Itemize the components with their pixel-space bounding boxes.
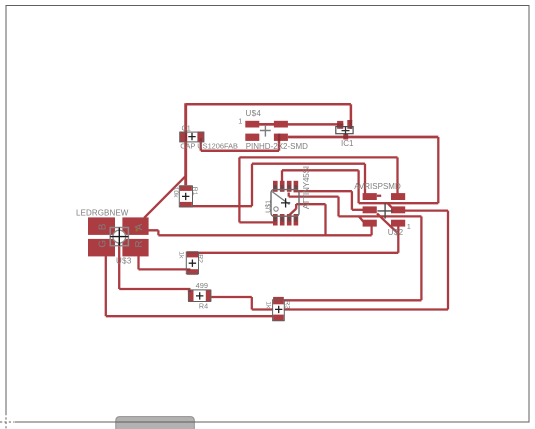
wire y164 to AVRISP top-left [252,163,365,165]
svg-text:R: R [134,240,145,247]
wire x239 vertical [238,157,240,222]
chip U$1 pin1 diagonal [272,192,290,205]
U$4 origin cross [260,125,271,137]
wire C1 right to U$4 [201,149,279,152]
wire C1 left / R1 vertical [184,103,187,186]
resistor R3 [273,297,284,321]
svg-text:U$3: U$3 [116,257,132,266]
wire y157 to AVRISP top-right [239,156,397,158]
wire LED A jog [148,230,159,235]
wire long net y235 [158,234,371,236]
wire y317 to R3 bottom [106,315,274,317]
wire U$4 pad drop [278,140,281,151]
U$4 pad/trace overlap [278,134,280,141]
scrollbar thumb [116,417,195,429]
chip U$1 pin leg marks [274,185,297,222]
wire into AVRISP mid-left pad [352,209,364,211]
IC1 body outline [336,127,353,134]
wire y196 across [289,195,339,197]
C1 origin cross [188,133,195,140]
U$2 origin cross [377,203,392,218]
wire mitre into mid-right pad [387,203,393,209]
chip U$1 pads [273,181,298,226]
R3 origin cross [275,306,282,313]
wire chip pin7 riser [281,170,283,182]
wire nub into bot-left pad [359,216,364,221]
svg-text:R4: R4 [199,301,208,310]
wire U$4 to IC1 top [259,123,339,126]
svg-text:R1: R1 [191,187,198,196]
wire C1 right pad drop [200,141,203,151]
wire R4 right drop [251,297,253,310]
LED U$3 center square marker [110,228,128,246]
capacitor C1 [180,132,204,143]
wire x358 drop [357,170,359,203]
IC1 origin cross [342,127,350,135]
wire y309 across (under R3) [252,308,448,310]
wire chip pin4 bottom feed [239,221,274,223]
wire to IC1 input [350,104,353,121]
svg-text:499: 499 [196,281,208,290]
wire chip bottom diagonal [288,209,296,217]
origin crosshair (dashed) [0,413,14,429]
svg-text:AVRISPSMD: AVRISPSMD [354,182,401,191]
connector U$4 pads [245,121,288,141]
LED U$3 center ring [113,230,126,243]
wire chip pin6 stub [288,193,290,197]
resistor R2 [187,251,198,275]
svg-text:IC1: IC1 [341,139,354,148]
wire LED R drop [137,256,139,270]
LED U$3 pads [88,217,149,256]
wire right loop vertical [437,137,439,203]
U$3 origin cross [110,228,128,246]
wire y269 to R2 bottom [139,268,191,270]
svg-text:C1: C1 [182,123,191,132]
wire AVRISP bot-right pad drop [397,226,399,253]
wire junction x326 [324,204,326,235]
wire x352 drop [351,191,353,210]
wire LED G loop vertical [105,256,107,317]
wire AVRISP bot-left pad drop [370,226,372,236]
wire R2 top to AVRISP bot-right [198,252,399,254]
svg-text:1: 1 [238,117,242,126]
resistor R1 [180,185,192,207]
LED A pad polarity mark [136,229,138,232]
svg-text:A: A [134,223,145,230]
IC1 pads [337,120,352,140]
svg-text:R2: R2 [197,254,204,263]
capacitor C1 outline [180,132,204,142]
svg-text:1: 1 [407,222,411,231]
R4 origin cross [196,292,203,299]
resistor R1 outline [179,186,192,207]
wire R1 bottom to x252 [190,205,252,207]
wire LED B drop [118,237,120,289]
wire VCC to AVRISP mid-right [359,202,439,204]
svg-text:U$2: U$2 [388,228,404,237]
svg-text:1k: 1k [265,301,272,309]
wire y216 across [339,215,422,217]
R2 origin cross [189,260,196,267]
connector U$2 AVRISP pads [363,193,406,226]
svg-text:10k: 10k [172,187,179,199]
resistor R4 outline [189,290,211,302]
svg-text:PINHD-2X2-SMD: PINHD-2X2-SMD [246,142,308,151]
svg-text:CAP US1206FAB: CAP US1206FAB [180,142,238,151]
resistor R4 [188,290,212,301]
svg-text:1k: 1k [178,251,185,259]
svg-text:ATTINY45SI: ATTINY45SI [301,166,311,209]
wire mid-right pad to x447 [405,209,449,211]
wire chip pin8 to mid-left [294,190,352,192]
wire GND U$4 to right loop [288,136,438,139]
U$2 pin1 stub [377,195,381,197]
chip U$1 pin1 circle [274,207,278,211]
svg-text:G: G [98,240,109,248]
U$1 origin cross [281,198,290,207]
wire AVRISP diagonal mid-left to bot-right [377,214,398,234]
wire x447 drop [447,211,449,310]
chip U$1 body outline [271,190,299,217]
wire x338 drop [337,197,339,217]
svg-text:B: B [98,223,109,230]
resistor R2 outline [186,252,198,274]
wire VCC top loop [186,103,351,106]
svg-text:R3: R3 [283,300,290,309]
wire AVRISP top-right pad riser [396,157,398,194]
wire AVRISP top-left pad riser [364,164,366,195]
wire R4 right to x251 [211,296,252,298]
svg-text:LEDRGBNEW: LEDRGBNEW [76,209,129,218]
wire y170 across [282,169,359,171]
wire R3 top to x422 [284,299,422,301]
svg-text:U$4: U$4 [246,109,262,118]
svg-text:U$1: U$1 [266,200,273,213]
wire chip bottom to x326 [296,203,325,205]
resistor R3 outline [273,300,285,321]
R1 origin cross [182,193,189,200]
wire chip bottom stub [295,204,297,209]
wire diagonal LED A to R1 net [144,176,186,218]
wire y290 to R4 left [119,288,190,290]
wire x252 vertical [251,164,253,207]
wire x422 drop to R3 top [420,216,422,300]
